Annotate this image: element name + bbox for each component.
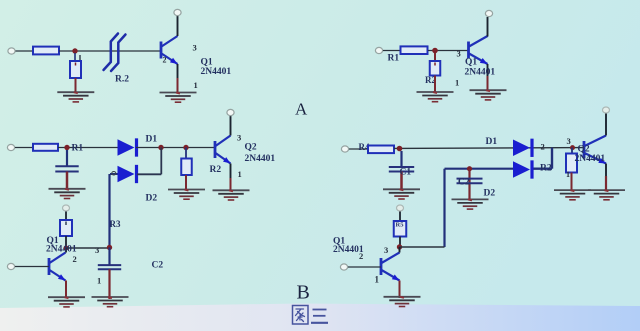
svg-text:Q1: Q1 <box>201 58 213 68</box>
svg-text:C1: C1 <box>400 168 412 178</box>
svg-text:2N4401: 2N4401 <box>201 67 232 77</box>
svg-text:R2: R2 <box>540 164 552 174</box>
svg-text:2: 2 <box>359 251 363 261</box>
svg-text:R2: R2 <box>210 165 222 175</box>
svg-text:C2: C2 <box>152 261 164 271</box>
svg-text:R5: R5 <box>396 222 405 229</box>
svg-text:2: 2 <box>541 142 545 152</box>
svg-text:2N4401: 2N4401 <box>46 245 77 255</box>
svg-text:2N4401: 2N4401 <box>465 68 496 78</box>
svg-text:D1: D1 <box>146 135 158 145</box>
svg-text:R1: R1 <box>388 54 400 64</box>
svg-text:A: A <box>295 100 308 119</box>
svg-text:Q2: Q2 <box>245 143 257 153</box>
svg-text:1: 1 <box>566 170 570 179</box>
svg-text:D2: D2 <box>484 189 496 199</box>
svg-text:2N4401: 2N4401 <box>575 154 606 164</box>
svg-text:1: 1 <box>238 169 242 179</box>
svg-text:3: 3 <box>457 49 461 59</box>
svg-text:Q1: Q1 <box>465 58 477 68</box>
svg-text:2: 2 <box>73 254 77 264</box>
svg-text:R3: R3 <box>110 219 121 229</box>
svg-text:2: 2 <box>163 56 167 65</box>
svg-text:1: 1 <box>455 78 459 88</box>
svg-text:3: 3 <box>95 245 99 255</box>
svg-text:D2: D2 <box>146 194 158 204</box>
svg-text:R.2: R.2 <box>115 75 129 85</box>
svg-text:3: 3 <box>193 43 197 53</box>
svg-text:Q2: Q2 <box>578 145 590 155</box>
svg-text:B: B <box>297 282 310 304</box>
svg-text:D1: D1 <box>486 137 498 147</box>
svg-text:2N4401: 2N4401 <box>245 154 276 164</box>
svg-text:C2: C2 <box>458 178 470 188</box>
svg-text:3: 3 <box>237 133 241 143</box>
svg-text:1: 1 <box>97 276 101 286</box>
svg-text:3: 3 <box>384 245 388 255</box>
svg-text:3: 3 <box>567 136 571 146</box>
svg-text:1: 1 <box>375 275 380 285</box>
svg-text:1: 1 <box>194 80 198 90</box>
svg-text:R1: R1 <box>72 144 84 154</box>
